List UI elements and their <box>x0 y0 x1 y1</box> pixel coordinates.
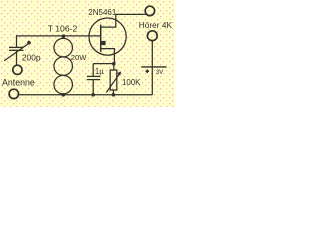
wire left vertical upper <box>16 36 18 47</box>
capacitor C2 top lead <box>92 64 94 76</box>
svg-text:3V: 3V <box>156 69 164 76</box>
transistor Q1 gate arrow <box>101 41 105 45</box>
wire top-left gate net <box>16 35 100 37</box>
capacitor C2 plate bottom <box>87 79 100 81</box>
wire left vertical lower <box>16 50 18 65</box>
inductor L1 turn 2 <box>54 57 72 76</box>
node source junction <box>112 62 116 66</box>
svg-text:Hörer 4K: Hörer 4K <box>139 20 173 30</box>
terminal phones lower <box>147 31 157 41</box>
resistor R1 arrowhead <box>117 71 121 75</box>
svg-text:200p: 200p <box>22 53 41 63</box>
svg-text:100K: 100K <box>122 78 141 87</box>
capacitor C1 200p plate bottom <box>9 49 24 51</box>
svg-text:2N5461: 2N5461 <box>88 8 117 17</box>
label battery plus <box>146 70 149 73</box>
resistor R1 top lead <box>113 64 115 70</box>
wire drain to phones <box>116 13 147 15</box>
wire bottom rail <box>19 94 153 96</box>
node cap C2 rail junction <box>91 93 95 97</box>
resistor R1 body <box>110 70 117 90</box>
capacitor C1 200p plate top <box>9 46 24 48</box>
node coil bottom junction <box>62 93 66 97</box>
resistor R1 trimmer arrow <box>106 73 120 93</box>
svg-text:1µ: 1µ <box>95 67 104 76</box>
capacitor C1 trimmer arrow <box>4 44 28 61</box>
transistor Q1 2N5461 circle <box>89 18 126 55</box>
capacitor C2 plate top <box>87 75 100 77</box>
wire source junction to cap C2 <box>93 63 114 65</box>
svg-text:T 106-2: T 106-2 <box>48 23 78 33</box>
wire phones to battery to rail <box>151 41 153 95</box>
terminal antenna lower <box>9 89 18 98</box>
inductor L1 turn 1 <box>54 38 72 57</box>
terminal phones upper <box>145 6 154 15</box>
capacitor C1 arrow end dot <box>27 41 31 45</box>
background <box>0 0 175 107</box>
node coil top junction <box>62 34 66 38</box>
svg-text:Antenne: Antenne <box>2 77 35 87</box>
inductor L1 turn 3 <box>54 75 72 94</box>
node resistor rail junction <box>112 93 116 97</box>
transistor Q1 drain lead <box>101 14 116 27</box>
terminal antenna upper <box>13 65 22 74</box>
svg-text:20W: 20W <box>71 53 87 62</box>
battery plus sign <box>146 71 149 72</box>
capacitor C2 bottom lead <box>92 80 94 95</box>
transistor Q1 channel bar <box>100 25 102 52</box>
resistor R1 bottom lead <box>112 90 114 95</box>
battery plus plate 3V <box>141 66 166 68</box>
transistor Q1 source lead <box>101 49 115 64</box>
